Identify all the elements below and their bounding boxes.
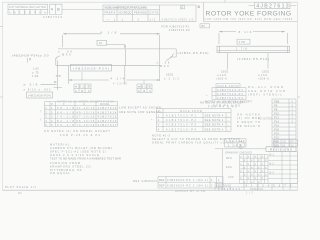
- svg-text:4JB27613: 4JB27613: [43, 15, 62, 19]
- svg-text:⌀ .75: ⌀ .75: [32, 70, 39, 74]
- svg-text:MFG: MFG: [226, 156, 232, 160]
- svg-text:P20: P20: [274, 131, 279, 135]
- svg-text:B: B: [181, 5, 183, 9]
- svg-text:OR EQUAL: OR EQUAL: [50, 171, 70, 175]
- svg-text:EF: EF: [291, 140, 295, 144]
- svg-text:ROTOR YOKE FORGING: ROTOR YOKE FORGING: [206, 11, 293, 18]
- svg-text:SEE NOTE 4: SEE NOTE 4: [205, 127, 224, 131]
- svg-text:4JB27614: 4JB27614: [98, 110, 117, 114]
- svg-text:⌀.50: ⌀.50: [40, 54, 49, 58]
- svg-text:SEE NOTE 4: SEE NOTE 4: [205, 113, 224, 117]
- svg-text:B-3: B-3: [270, 171, 275, 175]
- svg-text:⌀ 1 1/2: ⌀ 1 1/2: [217, 73, 227, 77]
- svg-text:(4B32H28-P34): (4B32H28-P34): [28, 94, 51, 98]
- svg-text:PER MOD: PER MOD: [134, 10, 147, 14]
- svg-text:{: {: [41, 117, 42, 121]
- svg-text:MAX: MAX: [62, 52, 71, 56]
- svg-text:⌀ 1 1/2: ⌀ 1 1/2: [258, 73, 268, 77]
- svg-text:NOTES (4) ON MODEL EXCEPT: NOTES (4) ON MODEL EXCEPT: [200, 100, 245, 104]
- svg-text:FOR 4JB27613-P1: FOR 4JB27613-P1: [161, 25, 189, 29]
- svg-text:FORGING FROM: FORGING FROM: [50, 161, 80, 165]
- top right cells: [274, 140, 298, 148]
- svg-text:4 13/32: 4 13/32: [113, 82, 127, 86]
- svg-text:4JB27613-P2: 4JB27613-P2: [217, 92, 243, 96]
- svg-text:ORDNL PRINT CARBON TLR QUALITY: ORDNL PRINT CARBON TLR QUALITY LG ONLY: [152, 141, 236, 145]
- leader right: [267, 53, 269, 69]
- svg-text:P12: P12: [274, 115, 279, 119]
- svg-text:57-13/16: 57-13/16: [77, 115, 95, 119]
- svg-text:58-1/8: 58-1/8: [57, 106, 74, 110]
- boxed label 4B32H28-P34: [71, 64, 112, 71]
- svg-text:PREFIX: PREFIX: [105, 10, 116, 14]
- svg-text:ARE NOTE FOR GENERAL: ARE NOTE FOR GENERAL: [119, 110, 162, 114]
- svg-text:1 3/4: 1 3/4: [32, 74, 39, 78]
- rev flag box: [200, 24, 210, 28]
- svg-text:— 1: — 1: [107, 18, 116, 22]
- top border tick: [224, 0, 226, 2]
- svg-text:1 7/8: 1 7/8: [239, 40, 246, 44]
- svg-text:DRAWN BY CHECKED: DRAWN BY CHECKED: [225, 150, 252, 154]
- svg-text:AS NOTED: AS NOTED: [258, 116, 272, 120]
- svg-text:4JB27613: 4JB27613: [218, 187, 240, 191]
- svg-text:82-1/8: 82-1/8: [57, 119, 74, 123]
- svg-text:DATE: DATE: [150, 10, 159, 14]
- svg-text:CARBON STL BILLET (OR BLOOM): CARBON STL BILLET (OR BLOOM): [50, 146, 112, 150]
- svg-text:(4) ON MOD: (4) ON MOD: [237, 116, 260, 120]
- svg-text:ENG: ENG: [226, 165, 232, 169]
- svg-text:B2: B2: [202, 24, 206, 28]
- part left edge: [55, 58, 57, 65]
- svg-text:P22: P22: [274, 135, 279, 139]
- svg-text:1/2: 1/2: [150, 18, 156, 22]
- forging source block: [50, 161, 92, 175]
- svg-text:←: ←: [227, 124, 230, 127]
- svg-text:REF: REF: [159, 184, 165, 188]
- border frame: [3, 2, 298, 190]
- svg-text:HDNS 2.5-3 3/16 SCALE: HDNS 2.5-3 3/16 SCALE: [50, 153, 99, 157]
- datum box 1A: [97, 40, 107, 45]
- yoke bar rect: [217, 46, 290, 53]
- svg-text:4JB27613: 4JB27613: [98, 106, 117, 110]
- svg-text:⌀ 1 1/2: ⌀ 1 1/2: [164, 76, 179, 80]
- svg-text:15/32: 15/32: [221, 69, 229, 73]
- svg-text:1.00: 1.00: [33, 67, 39, 71]
- svg-text:⊕ Ø.12 Ⓜ: ⊕ Ø.12 Ⓜ: [75, 85, 90, 89]
- svg-text:SPEC P-3C1-A2 (SEE NOTE 2): SPEC P-3C1-A2 (SEE NOTE 2): [50, 150, 106, 154]
- svg-text:KRAMFORS STEEL CO.: KRAMFORS STEEL CO.: [50, 164, 92, 168]
- svg-text:(4B32H28-P34): (4B32H28-P34): [73, 67, 109, 71]
- svg-text:4JB27613-P3: 4JB27613-P3: [217, 96, 243, 100]
- svg-text:1 OF 2: 1 OF 2: [228, 143, 242, 147]
- svg-text:4JB27613-P1: 4JB27613-P1: [217, 88, 243, 92]
- svg-text:⌀ 9/16 ± .002: ⌀ 9/16 ± .002: [24, 87, 51, 91]
- title block top divider: [204, 2, 298, 21]
- svg-text:P16: P16: [274, 123, 279, 127]
- svg-text:66-1/8: 66-1/8: [57, 110, 74, 114]
- dim 4 1/8 ext lines: [63, 35, 160, 81]
- svg-text:P: P: [51, 102, 53, 106]
- svg-text:73-13/16: 73-13/16: [77, 123, 95, 127]
- svg-text:←: ←: [227, 114, 230, 117]
- svg-text:P8: P8: [274, 107, 278, 111]
- svg-text:15/32: 15/32: [262, 69, 270, 73]
- svg-text:APP: APP: [228, 175, 234, 179]
- drawn-by line: [215, 149, 266, 190]
- drawing number box: [249, 2, 297, 8]
- svg-text:SEE NOTE 4: SEE NOTE 4: [205, 118, 224, 122]
- bottom band: [215, 184, 298, 191]
- part bottom edge: [56, 64, 160, 66]
- leader down: [26, 58, 28, 63]
- right of grid rows: [268, 152, 298, 184]
- svg-text:4JB27617: 4JB27617: [98, 123, 117, 127]
- svg-text:LOW EXCEPT AS SHOWN: LOW EXCEPT AS SHOWN: [119, 106, 161, 110]
- svg-text:LIST MATERIAL REV LETTER: LIST MATERIAL REV LETTER: [9, 5, 46, 9]
- dim 4 1/8 line: [63, 33, 160, 35]
- svg-text:MODEL: MODEL: [100, 102, 110, 106]
- svg-text:REF 4JB30024: REF 4JB30024: [133, 179, 157, 183]
- svg-text:ON NOTES (4) ON MODEL EXCEPT: ON NOTES (4) ON MODEL EXCEPT: [44, 129, 110, 133]
- svg-text:MAKE FROM: MAKE FROM: [180, 109, 202, 113]
- svg-text:TEST TO BE MADE FROM A KAMBERE: TEST TO BE MADE FROM A KAMBERED TEST BAR: [50, 156, 121, 160]
- svg-text:REF: REF: [159, 178, 165, 182]
- svg-text:41-13/16: 41-13/16: [77, 106, 95, 110]
- svg-text:⊕ Ø.12 Ⓜ: ⊕ Ø.12 Ⓜ: [138, 85, 151, 89]
- wire from box to center table: [62, 8, 103, 10]
- svg-text:FOR P4 & P5: FOR P4 & P5: [208, 104, 237, 108]
- svg-text:RG-ALL OVER: RG-ALL OVER: [248, 85, 283, 89]
- svg-text:(4JB31-P5,P10): (4JB31-P5,P10): [178, 51, 209, 55]
- svg-text:49-13/16: 49-13/16: [77, 110, 95, 114]
- datum box leader: [107, 45, 126, 48]
- fold mark left middle: [0, 96, 3, 98]
- svg-text:+1/16 -0: +1/16 -0: [258, 77, 269, 81]
- svg-text:B-2: B-2: [270, 162, 275, 166]
- svg-text:D4: D4: [18, 191, 22, 194]
- svg-text:1A: 1A: [99, 41, 103, 45]
- svg-text:MAX: MAX: [160, 64, 169, 68]
- part top edge: [58, 49, 176, 57]
- svg-text:4JB27615: 4JB27615: [98, 115, 117, 119]
- svg-text:FOR P-25,26 & P4: FOR P-25,26 & P4: [60, 133, 100, 137]
- svg-text:4JB27613-P2: 4JB27613-P2: [169, 28, 190, 32]
- svg-text:FOR 1250 KW 750 (900 HP, 600): FOR 1250 KW 750 (900 HP, 600) RPM GEN 73…: [205, 17, 293, 21]
- svg-text:4JB30024-PC 1 (SH 1): 4JB30024-PC 1 (SH 1): [167, 178, 208, 182]
- svg-text:A B C D E F G H: A B C D E F G H: [9, 11, 46, 15]
- callout leader right: [166, 54, 174, 61]
- dim 4 1/4 line: [69, 66, 161, 84]
- svg-text:APPROX WT 47 LB: APPROX WT 47 LB: [175, 189, 205, 193]
- top-left revision table: [8, 4, 48, 14]
- rev balloon 3: [237, 141, 244, 148]
- top-left small box: [50, 4, 63, 14]
- fold mark left upper: [0, 25, 3, 27]
- svg-text:P5B: P5B: [274, 99, 279, 103]
- svg-text:74-1/8: 74-1/8: [57, 115, 74, 119]
- revisions band: [266, 147, 296, 152]
- svg-text:1/2: 1/2: [246, 190, 253, 194]
- svg-text:90-1/8: 90-1/8: [57, 123, 74, 127]
- svg-text:P10: P10: [274, 111, 279, 115]
- boxed label bottom: [27, 92, 53, 98]
- svg-text:4JB27613: 4JB27613: [216, 184, 229, 188]
- svg-text:B-1: B-1: [270, 153, 275, 157]
- svg-text:MODEL NUMBERS REQD FOR THE FOL: MODEL NUMBERS REQD FOR THE FOLLOWING: [105, 6, 148, 10]
- svg-text:P: P: [158, 109, 160, 113]
- center model table: [103, 5, 196, 21]
- svg-text:BE MACH'D: BE MACH'D: [237, 124, 260, 128]
- svg-text:(4B32H28-P34): (4B32H28-P34): [12, 54, 39, 58]
- svg-text:P14: P14: [274, 119, 279, 123]
- svg-text:CD: CD: [282, 140, 286, 144]
- dim 8 1/4: [219, 32, 288, 44]
- weight box: [225, 139, 247, 147]
- svg-text:+1/16 -0: +1/16 -0: [216, 77, 227, 81]
- svg-text:NOTE #1-3: NOTE #1-3: [152, 133, 170, 137]
- svg-text:←: ←: [227, 119, 230, 122]
- svg-text:SEE NOTE 4: SEE NOTE 4: [205, 123, 224, 127]
- svg-text:4JB30024-PC 2 (SH 2): 4JB30024-PC 2 (SH 2): [167, 184, 208, 188]
- svg-text:4JB27613: 4JB27613: [256, 4, 289, 10]
- svg-text:ON NOTES: ON NOTES: [237, 112, 260, 116]
- svg-text:NO REQD: NO REQD: [119, 10, 132, 14]
- gdt frame B: [137, 80, 152, 93]
- svg-text:15/32: 15/32: [166, 73, 174, 77]
- svg-text:SCALE 1/2: SCALE 1/2: [250, 187, 263, 191]
- svg-text:AB: AB: [275, 140, 279, 144]
- svg-text:←: ←: [227, 128, 230, 131]
- svg-text:4: 4: [51, 8, 53, 12]
- svg-text:TYP: TYP: [56, 74, 62, 78]
- svg-text:P REQD TO: P REQD TO: [237, 120, 260, 124]
- svg-text:P6: P6: [274, 103, 278, 107]
- boxed 1 7/8: [237, 39, 250, 44]
- svg-text:P18: P18: [274, 127, 279, 131]
- fold mark right middle: [298, 96, 301, 98]
- leader left: [227, 53, 229, 70]
- svg-text:4JB27613 (REF) 1/2: 4JB27613 (REF) 1/2: [162, 17, 194, 21]
- svg-text:(4JB31-P5,P10): (4JB31-P5,P10): [237, 57, 269, 61]
- gdt frame A: [74, 72, 91, 93]
- svg-text:65-13/16: 65-13/16: [77, 119, 95, 123]
- svg-text:G: G: [83, 102, 85, 106]
- dim arrows: [63, 33, 160, 81]
- section line: [124, 49, 127, 84]
- svg-text:MAKE FROM: MAKE FROM: [218, 84, 239, 88]
- signature grid: [240, 155, 269, 184]
- svg-text:PITTSBURGH, PA.: PITTSBURGH, PA.: [50, 168, 83, 172]
- svg-text:PLOT SCALE 1/1: PLOT SCALE 1/1: [5, 185, 36, 189]
- svg-text:4JB27616: 4JB27616: [98, 119, 117, 123]
- callout leader left: [56, 56, 60, 59]
- svg-text:F: F: [63, 102, 65, 106]
- svg-text:REVISIONS: REVISIONS: [270, 148, 292, 152]
- svg-text:{: {: [41, 109, 42, 113]
- svg-text:MATERIAL:: MATERIAL:: [50, 143, 71, 147]
- svg-text:4 SH 1340: 4 SH 1340: [226, 139, 245, 143]
